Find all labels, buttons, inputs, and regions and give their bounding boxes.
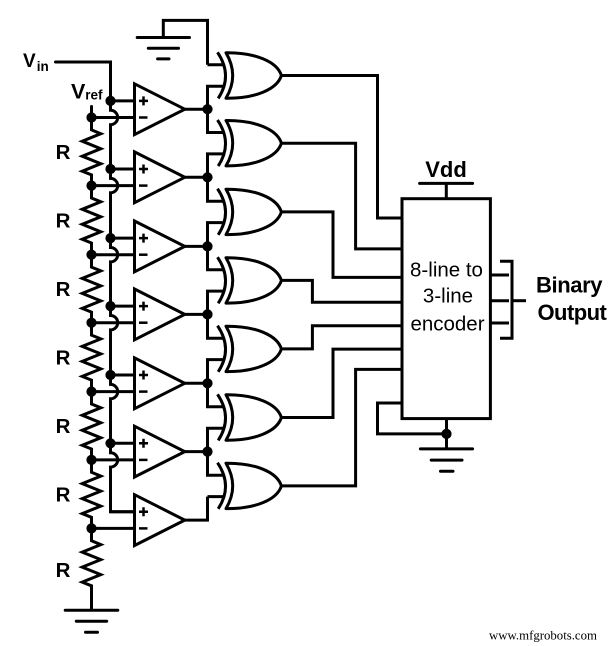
svg-text:www.mfgrobots.com: www.mfgrobots.com <box>489 629 597 643</box>
wire: XOR G3 output to encoder <box>281 212 402 278</box>
wire: comparator U3 - input <box>92 253 135 256</box>
resistor R4 <box>82 323 101 392</box>
wire: comparator U4 + input <box>111 305 135 308</box>
wire: bracket tick <box>512 299 526 302</box>
Vin label <box>23 51 49 74</box>
resistor R2 <box>82 186 101 255</box>
wire: Vref terminal stub <box>90 107 93 118</box>
wire: comparator U5 - input <box>92 390 135 393</box>
comparator U5 <box>135 358 185 409</box>
wire: comparator U2 output <box>185 176 208 179</box>
xor gate G5 <box>218 326 282 372</box>
wire: comparator U6 + input <box>111 442 135 445</box>
resistor R6 <box>82 460 101 529</box>
wire: comparator U1 output <box>185 108 208 111</box>
wire: XOR G4 output to encoder <box>281 280 402 302</box>
ground (top, XOR1 reference input) <box>137 38 189 59</box>
wire: comparator U6 - input <box>92 458 135 461</box>
resistor R1 <box>82 118 101 186</box>
encoder U8 (8-line to 3-line) <box>402 199 490 419</box>
svg-text:R: R <box>56 559 71 582</box>
wire: Vdd stub to encoder <box>445 183 448 198</box>
svg-text:Binary: Binary <box>536 273 603 298</box>
svg-text:V: V <box>23 51 36 72</box>
wire: XOR G3 lower input <box>208 223 225 247</box>
wire: XOR G1 upper input <box>208 63 225 66</box>
wire: XOR G1 output to encoder <box>281 76 402 219</box>
wire: comparator U7 + input <box>111 510 135 513</box>
svg-text:in: in <box>37 59 49 74</box>
comparator U4 <box>135 289 185 340</box>
wire: comparator U2 + input <box>111 168 135 171</box>
svg-text:ref: ref <box>85 88 103 103</box>
wire: comparator U1 - input <box>92 116 135 119</box>
bracket: binary output group <box>500 261 512 338</box>
comparator U6 <box>135 426 185 477</box>
xor gate G6 <box>218 394 282 440</box>
wire: comparator U5 output <box>185 382 208 385</box>
svg-text:R: R <box>56 484 71 507</box>
svg-text:R: R <box>56 278 71 301</box>
wire: XOR G2 upper input <box>208 109 225 132</box>
wire: XOR G4 lower input <box>208 291 225 314</box>
wire: XOR G6 lower input <box>208 428 225 451</box>
comparator U3 <box>135 221 185 272</box>
Vref label <box>71 80 103 104</box>
comparator U7 <box>135 495 185 546</box>
label: encoder text <box>410 259 485 336</box>
svg-text:R: R <box>56 415 71 438</box>
wire: XOR G6 output to encoder <box>281 349 402 417</box>
svg-text:R: R <box>56 210 71 233</box>
wire: XOR G3 upper input <box>208 177 225 201</box>
wire: XOR G7 upper input <box>208 452 225 476</box>
wire: comparator U3 output <box>185 245 208 248</box>
comparator U1 <box>135 84 185 135</box>
wire: XOR G6 upper input <box>208 383 225 407</box>
wire: XOR G5 upper input <box>208 314 225 338</box>
wire: comparator U6 output <box>185 450 208 453</box>
resistor R3 <box>82 255 101 323</box>
svg-text:Output: Output <box>538 300 608 325</box>
junction dot: encoder ground <box>441 429 451 439</box>
wire: Vin bus (feeds + inputs, hops over ladder taps) <box>56 62 135 512</box>
svg-text:R: R <box>56 347 71 370</box>
ground (encoder) <box>420 449 472 471</box>
wire: top ground to XOR1 upper input <box>163 20 207 64</box>
wire: XOR G5 lower input <box>208 360 225 384</box>
xor gate G2 <box>218 120 282 166</box>
svg-text:Vdd: Vdd <box>425 157 467 182</box>
wire: XOR G2 output to encoder <box>281 143 402 249</box>
wire: XOR G4 upper input <box>208 246 225 269</box>
xor gate G3 <box>218 189 282 235</box>
wire: comparator U5 + input <box>111 374 135 377</box>
xor gate G4 <box>218 257 282 303</box>
svg-text:3-line: 3-line <box>423 285 473 308</box>
Vdd power bar <box>420 182 473 185</box>
wire: XOR G7 lower input <box>208 495 225 498</box>
wire: encoder ground stub <box>445 419 448 449</box>
xor gate G7 <box>218 463 282 509</box>
wire: comparator U1 + input <box>111 99 135 102</box>
wire: XOR G7 output to encoder <box>281 369 402 486</box>
xor gate G1 <box>218 52 282 98</box>
wire: comparator U7 - input <box>92 527 135 530</box>
wire: encoder input 0 tied to ground <box>378 403 447 434</box>
svg-text:encoder: encoder <box>410 312 484 335</box>
resistor R7 <box>82 528 101 610</box>
wire: comparator U3 + input <box>111 237 135 240</box>
svg-text:R: R <box>56 141 71 164</box>
junction dots: Vin bus taps <box>105 96 115 449</box>
comparator U2 <box>135 152 185 203</box>
svg-text:V: V <box>71 80 86 104</box>
Binary Output label <box>536 273 608 325</box>
wire: comparator U2 - input <box>92 184 135 187</box>
wire: binary output bit stubs <box>490 275 509 323</box>
R value labels <box>56 141 71 582</box>
ground (ladder bottom) <box>65 610 118 632</box>
wire: XOR G2 lower input <box>208 154 225 177</box>
junction dots: comparator outputs <box>202 104 212 457</box>
wire: XOR G5 output to encoder <box>281 326 402 349</box>
wire: comparator U4 output <box>185 313 208 316</box>
svg-text:8-line to: 8-line to <box>410 259 483 282</box>
wire: comparator U7 output <box>185 497 208 520</box>
junction dots: ladder taps <box>86 112 96 533</box>
resistor R5 <box>82 392 101 460</box>
wire: XOR G1 lower input <box>208 86 225 109</box>
wire: comparator U4 - input <box>92 321 135 324</box>
